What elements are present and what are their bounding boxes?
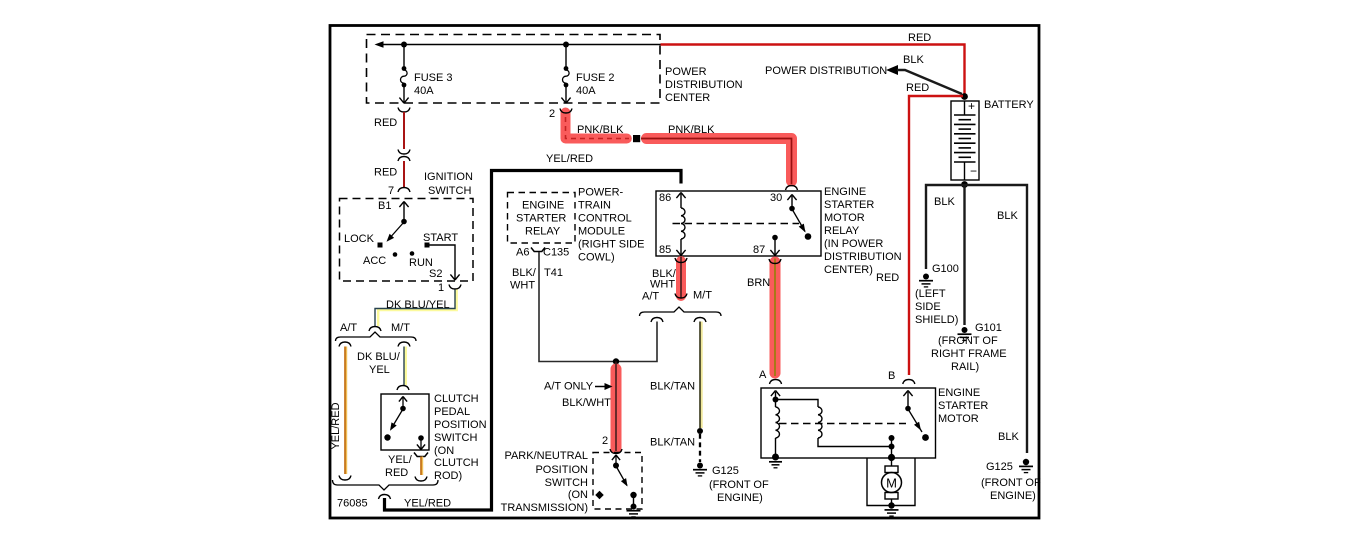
park/neutral switch arm: [613, 463, 637, 499]
svg-text:RED: RED: [374, 167, 397, 179]
label A6: [516, 247, 529, 259]
ground G125 (front of engine): [693, 463, 707, 476]
contact START: [423, 232, 458, 248]
label G125 right: [986, 461, 1013, 473]
svg-text:(IN POWER: (IN POWER: [824, 238, 883, 250]
wire BLK/TAN from M/T branch: [700, 322, 701, 429]
label BLK/TAN: [650, 381, 695, 393]
label DK BLU/YEL: [386, 299, 450, 311]
engine starter motor box: [761, 388, 936, 458]
ignition pin B1 arrow: [399, 202, 408, 221]
label RED: [374, 167, 397, 179]
svg-text:BLK: BLK: [934, 196, 955, 208]
connector bottom of pin85 wire: [675, 294, 687, 299]
node junction fuse3: [401, 42, 407, 48]
svg-text:DISTRIBUTION: DISTRIBUTION: [665, 79, 743, 91]
engine starter motor relay box: [656, 191, 821, 256]
svg-text:POWER DISTRIBUTION: POWER DISTRIBUTION: [765, 65, 887, 77]
starter motor switch arm: [905, 406, 929, 441]
label 2 (park/neutral pin): [602, 435, 608, 447]
label B: [888, 370, 895, 382]
connector pin 7 ignition switch: [388, 185, 410, 197]
starter motor pin A arrow: [771, 391, 780, 399]
svg-text:STARTER: STARTER: [938, 400, 988, 412]
splice junction square on PNK/BLK: [633, 135, 640, 142]
svg-text:(ON: (ON: [434, 445, 454, 457]
wire YEL/RED clutch branch: [420, 457, 424, 476]
label 85: [659, 244, 671, 256]
relay internal dashed link: [673, 223, 800, 225]
label 76085: [337, 498, 368, 510]
connector park/neutral pin 2: [610, 449, 622, 454]
ground inside park/neutral switch: [627, 496, 641, 517]
connector below merge brace: [379, 495, 391, 500]
svg-text:(FRONT OF: (FRONT OF: [709, 479, 769, 491]
svg-text:(RIGHT SIDE: (RIGHT SIDE: [578, 239, 644, 251]
svg-text:MOTOR: MOTOR: [824, 212, 865, 224]
label POWER-TRAIN CONTROL MODULE (RIGHT SIDE COWL): [578, 187, 644, 264]
svg-text:RED: RED: [906, 82, 929, 94]
svg-text:BATTERY: BATTERY: [984, 99, 1034, 111]
svg-text:SWITCH: SWITCH: [428, 185, 471, 197]
label 2 (fuse 2 pin): [549, 108, 555, 120]
label BLK/ WHT: [510, 267, 537, 292]
svg-text:B1: B1: [378, 200, 391, 212]
connector above clutch switch: [397, 386, 409, 391]
wire BLK/TAN dashed stub to ground: [699, 434, 701, 462]
svg-text:WHT: WHT: [510, 280, 535, 292]
wire DK BLU/YEL from ignition S2: [375, 290, 457, 327]
svg-text:A/T ONLY: A/T ONLY: [544, 381, 594, 393]
label PNK/BLK: [577, 124, 624, 136]
contact diamond: [595, 491, 603, 499]
svg-text:BLK/TAN: BLK/TAN: [650, 437, 695, 449]
svg-text:PNK/BLK: PNK/BLK: [668, 124, 715, 136]
svg-text:G125: G125: [712, 465, 739, 477]
svg-text:ENGINE: ENGINE: [938, 387, 980, 399]
svg-text:A/T: A/T: [642, 291, 659, 303]
label BLK (left): [934, 196, 955, 208]
svg-text:TRAIN: TRAIN: [578, 200, 611, 212]
label POWER DISTRIBUTION: [765, 65, 887, 77]
svg-text:2: 2: [602, 435, 608, 447]
label FUSE 3 40A: [414, 72, 453, 97]
contact RUN: [409, 251, 433, 269]
connector relay pin 30: [786, 186, 798, 191]
motor M symbol: [882, 458, 902, 503]
label A/T: [340, 322, 357, 334]
svg-text:A/T: A/T: [340, 322, 357, 334]
svg-text:BLK: BLK: [903, 54, 924, 66]
starter motor internal dashed link: [779, 423, 906, 425]
svg-text:PEDAL: PEDAL: [434, 406, 470, 418]
fuse FUSE 3 40A: [399, 46, 408, 103]
label A/T ONLY with arrow: [544, 381, 613, 393]
connector starter motor pin B: [903, 380, 915, 385]
svg-text:(FRONT OF: (FRONT OF: [981, 477, 1041, 489]
ground below motor: [885, 502, 899, 516]
ignition switch box (dashed): [340, 199, 474, 282]
svg-text:ENGINE): ENGINE): [990, 490, 1036, 502]
svg-text:PARK/NEUTRAL: PARK/NEUTRAL: [504, 450, 588, 462]
splice brace A/T M/T (ignition): [336, 332, 417, 341]
svg-text:85: 85: [659, 244, 671, 256]
svg-text:POSITION: POSITION: [535, 464, 588, 476]
park/neutral position switch box (dashed): [593, 453, 642, 510]
svg-text:30: 30: [770, 192, 782, 204]
wire RED battery feed (top): [661, 45, 965, 95]
svg-text:IGNITION: IGNITION: [424, 171, 473, 183]
svg-text:CENTER: CENTER: [665, 92, 710, 104]
relay pin 30 arrow: [787, 195, 796, 208]
svg-text:POWER-: POWER-: [578, 187, 624, 199]
label YEL/ RED: [385, 454, 413, 479]
wire YEL/RED left vertical: [344, 347, 348, 475]
clutch switch pin arrow: [399, 397, 407, 408]
connector M/T branch (relay): [694, 318, 706, 323]
svg-text:LOCK: LOCK: [344, 233, 375, 245]
wire BLK/WHT from PCM down and A/T branch: [539, 252, 657, 362]
svg-text:A6: A6: [516, 247, 529, 259]
svg-text:CLUTCH: CLUTCH: [434, 393, 479, 405]
label BRN: [747, 277, 770, 289]
svg-text:SWITCH: SWITCH: [545, 477, 588, 489]
label A/T: [642, 291, 659, 303]
label BLK bottom right: [998, 431, 1019, 443]
label ENGINE STARTER RELAY: [516, 200, 566, 238]
connector A/T branch (relay): [651, 318, 663, 323]
svg-text:RED: RED: [908, 32, 931, 44]
node starter motor output: [888, 454, 895, 461]
svg-text:M/T: M/T: [391, 322, 410, 334]
svg-text:COWL): COWL): [578, 252, 615, 264]
svg-text:YEL/: YEL/: [388, 454, 413, 466]
starter motor contact: [889, 435, 895, 457]
label FUSE 2 40A: [576, 72, 615, 97]
label ENGINE STARTER MOTOR RELAY (IN POWER DISTRIBUTION CENTER): [824, 186, 902, 276]
label T41: [544, 267, 563, 279]
label S2 and pin 1: [429, 268, 444, 294]
svg-text:YEL/RED: YEL/RED: [330, 402, 342, 449]
connector A/T branch: [339, 342, 351, 347]
fuse FUSE 2 40A: [561, 46, 570, 103]
connector at A/T M/T split: [369, 327, 381, 332]
wire YEL/RED thick path to relay pin 86: [385, 171, 682, 511]
svg-text:BLK: BLK: [998, 431, 1019, 443]
svg-text:C135: C135: [543, 247, 569, 259]
svg-text:POWER: POWER: [665, 66, 707, 78]
connector below fuse 2: [560, 109, 572, 114]
ignition switch arm: [387, 219, 407, 242]
engine starter relay label box (dashed): [508, 193, 576, 244]
svg-text:MOTOR: MOTOR: [938, 413, 979, 425]
svg-text:FUSE 3: FUSE 3: [414, 72, 453, 84]
svg-text:87: 87: [753, 244, 765, 256]
svg-text:RELAY: RELAY: [525, 226, 561, 238]
starter motor pin B arrow: [903, 391, 912, 408]
label YEL/RED bottom: [404, 498, 451, 510]
splice brace A/T M/T (relay 85): [640, 307, 722, 316]
wire bus inside PDC with left arrow: [375, 41, 662, 48]
svg-text:T41: T41: [544, 267, 563, 279]
wire BLK/WHT highlighted below pin 85: [676, 257, 686, 299]
relay pin 86 arrow: [676, 193, 685, 209]
svg-text:RIGHT FRAME: RIGHT FRAME: [931, 348, 1007, 360]
svg-text:G100: G100: [932, 263, 959, 275]
svg-text:1: 1: [438, 282, 444, 294]
svg-text:POSITION: POSITION: [434, 419, 487, 431]
node junction BLK/WHT: [613, 358, 619, 364]
label ENGINE STARTER MOTOR: [938, 387, 988, 425]
svg-text:TRANSMISSION): TRANSMISSION): [501, 502, 588, 514]
node junction BLK/TAN: [697, 428, 703, 434]
svg-text:(LEFT: (LEFT: [915, 288, 946, 300]
clutch pedal position switch box: [381, 394, 429, 450]
label PARK/NEUTRAL POSITION SWITCH (ON TRANSMISSION): [501, 450, 588, 514]
svg-text:40A: 40A: [576, 85, 596, 97]
svg-text:40A: 40A: [414, 85, 434, 97]
svg-text:(FRONT OF: (FRONT OF: [938, 335, 998, 347]
label (FRONT OF ENGINE) right: [981, 477, 1041, 502]
label 87: [753, 244, 765, 256]
wire DK BLU/YEL to clutch switch: [404, 347, 406, 386]
inline connector on RED wire: [398, 150, 410, 162]
wire BRN highlighted pin 87 to starter motor A: [770, 259, 781, 377]
label BLK/WHT: [562, 397, 611, 409]
wire PNK/BLK highlighted segment from fuse 2: [566, 113, 630, 139]
svg-text:2: 2: [549, 108, 555, 120]
svg-text:RED: RED: [876, 272, 899, 284]
svg-text:WHT: WHT: [650, 279, 675, 291]
connector below clutch switch: [414, 453, 428, 457]
svg-text:CONTROL: CONTROL: [578, 213, 632, 225]
ground G101: [958, 327, 972, 340]
svg-text:YEL/RED: YEL/RED: [404, 498, 451, 510]
contact ACC: [363, 252, 397, 267]
label BLK: [903, 54, 924, 66]
connector starter motor pin A: [770, 380, 782, 385]
label A: [759, 369, 767, 381]
starter motor coil 2: [776, 400, 892, 447]
motor enclosure box: [867, 458, 915, 506]
label M/T: [693, 290, 712, 302]
svg-text:M: M: [886, 476, 897, 491]
label DK BLU/ YEL: [357, 351, 401, 376]
label RED (battery-starter): [906, 82, 929, 94]
clutch switch output contact: [417, 435, 425, 449]
connector pin 1: [449, 285, 461, 290]
svg-text:BLK: BLK: [997, 210, 1018, 222]
svg-text:M/T: M/T: [693, 290, 712, 302]
battery symbol: [951, 99, 979, 180]
ground G125 right (front of engine): [1019, 459, 1033, 473]
label BLK/TAN second: [650, 437, 695, 449]
label G101: [975, 322, 1002, 334]
wire RED fuse3 upper segment: [403, 112, 405, 149]
relay coil: [681, 208, 685, 250]
label YEL/RED top: [546, 153, 593, 165]
label RED (by relay): [876, 272, 899, 284]
label (FRONT OF RIGHT FRAME RAIL): [931, 335, 1007, 373]
svg-text:STARTER: STARTER: [824, 199, 874, 211]
svg-text:CENTER): CENTER): [824, 264, 873, 276]
label M/T: [391, 322, 410, 334]
wire BLK to power distribution with arrow: [886, 65, 962, 94]
relay switch arm: [789, 206, 811, 240]
label RED: [374, 117, 397, 129]
svg-text:DK BLU/: DK BLU/: [357, 351, 401, 363]
label BLK (right): [997, 210, 1018, 222]
svg-text:BLK/WHT: BLK/WHT: [562, 397, 611, 409]
wire BLK to G101: [963, 185, 965, 325]
svg-text:START: START: [423, 232, 458, 244]
connector below FUSE 3: [398, 108, 410, 113]
label IGNITION SWITCH: [424, 171, 473, 197]
ground G100: [919, 274, 933, 287]
svg-text:76085: 76085: [337, 498, 368, 510]
wire BLK/WHT highlighted to park/neutral pin 2: [611, 362, 622, 452]
svg-text:ACC: ACC: [363, 255, 386, 267]
power distribution center box (dashed): [367, 35, 661, 104]
svg-text:B: B: [888, 370, 895, 382]
node battery negative: [961, 181, 968, 188]
label G100: [932, 263, 959, 275]
svg-text:+: +: [968, 99, 975, 113]
svg-text:−: −: [970, 164, 977, 178]
connector A6 C135: [531, 248, 545, 252]
label B1: [378, 200, 391, 212]
svg-text:ENGINE): ENGINE): [717, 492, 763, 504]
label 30: [770, 192, 782, 204]
relay pin 85 arrow: [676, 250, 685, 256]
svg-text:BLK/TAN: BLK/TAN: [650, 381, 695, 393]
label 86: [659, 192, 671, 204]
starter motor coil 1: [773, 397, 780, 457]
svg-text:RAIL): RAIL): [951, 361, 979, 373]
svg-text:DISTRIBUTION: DISTRIBUTION: [824, 251, 902, 263]
diagram border frame: [330, 26, 1039, 519]
label YEL/RED (rotated): [330, 402, 342, 449]
svg-text:CLUTCH: CLUTCH: [434, 457, 479, 469]
svg-text:MODULE: MODULE: [578, 226, 625, 238]
connector M/T branch: [398, 342, 410, 347]
connector bottom of clutch YEL/RED: [415, 477, 427, 482]
svg-text:SHIELD): SHIELD): [915, 314, 958, 326]
svg-text:ENGINE: ENGINE: [522, 200, 564, 212]
svg-text:BLK/: BLK/: [512, 267, 537, 279]
connector below pin 85: [675, 258, 687, 263]
label CLUTCH PEDAL POSITION SWITCH (ON CLUTCH ROD): [434, 393, 487, 482]
label G125 (FRONT OF ENGINE): [709, 465, 769, 504]
label BATTERY: [984, 99, 1034, 111]
ground inside starter motor (coil): [769, 454, 782, 468]
svg-text:SWITCH: SWITCH: [434, 432, 477, 444]
contact LOCK: [344, 233, 383, 248]
svg-text:(ON: (ON: [568, 489, 588, 501]
svg-text:YEL/RED: YEL/RED: [546, 153, 593, 165]
label (LEFT SIDE SHIELD): [915, 288, 958, 326]
svg-text:YEL: YEL: [369, 364, 390, 376]
svg-text:G125: G125: [986, 461, 1013, 473]
svg-text:BRN: BRN: [747, 277, 770, 289]
svg-text:RELAY: RELAY: [824, 225, 860, 237]
svg-text:RED: RED: [385, 467, 408, 479]
svg-text:SIDE: SIDE: [915, 301, 941, 313]
label BLK/ WHT: [650, 268, 677, 291]
svg-text:G101: G101: [975, 322, 1002, 334]
park/neutral pin arrow: [612, 455, 620, 463]
svg-text:A: A: [759, 369, 767, 381]
label POWER DISTRIBUTION CENTER: [665, 66, 743, 104]
wire START to S2: [429, 245, 460, 280]
svg-text:7: 7: [388, 185, 394, 197]
svg-text:PNK/BLK: PNK/BLK: [577, 124, 624, 136]
node battery positive: [961, 93, 968, 100]
merge brace YEL/RED: [333, 480, 439, 490]
svg-text:FUSE 2: FUSE 2: [576, 72, 615, 84]
label PNK/BLK second: [668, 124, 715, 136]
svg-text:DK BLU/YEL: DK BLU/YEL: [386, 299, 450, 311]
wire RED battery to starter B: [909, 96, 963, 375]
wire PNK/BLK highlighted segment to relay pin 30: [641, 139, 792, 185]
connector bottom of YEL/RED left: [339, 476, 351, 481]
clutch switch arm: [384, 406, 406, 441]
svg-text:STARTER: STARTER: [516, 213, 566, 225]
svg-text:86: 86: [659, 192, 671, 204]
connector below pin 87: [769, 259, 781, 264]
relay pin 87: [770, 235, 779, 256]
wire BLK ground bus: [926, 185, 1027, 453]
svg-text:S2: S2: [429, 268, 442, 280]
svg-text:ENGINE: ENGINE: [824, 186, 866, 198]
label RED top: [908, 32, 931, 44]
svg-text:RED: RED: [374, 117, 397, 129]
node junction fuse2: [563, 42, 569, 48]
wire RED lower segment: [403, 161, 405, 187]
label C135: [543, 247, 569, 259]
